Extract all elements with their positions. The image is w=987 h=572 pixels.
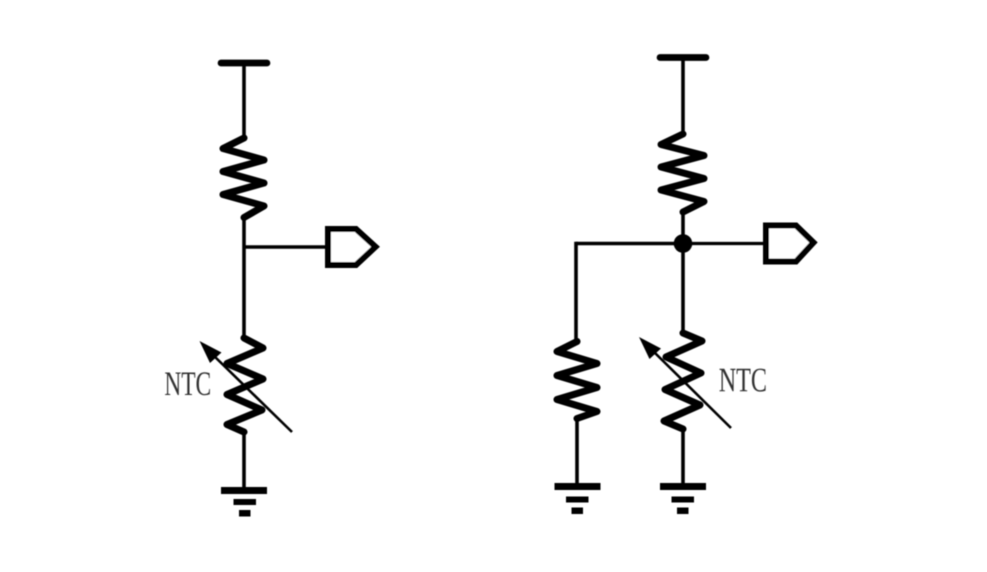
output port symbol (left) bbox=[328, 229, 376, 265]
output port symbol (right) bbox=[766, 226, 814, 262]
power bar VCC (right circuit) bbox=[660, 54, 706, 61]
wire: corner down to resistor R3 bbox=[574, 242, 578, 343]
resistor R3 (left branch) bbox=[557, 342, 597, 419]
wire: R3 to ground bbox=[575, 417, 579, 486]
wire: VCC bar to resistor R1 bbox=[242, 63, 246, 140]
wire: node to output port (right) bbox=[683, 242, 766, 245]
junction node dot bbox=[674, 234, 693, 253]
ground (R3 branch) bbox=[555, 483, 601, 514]
wire: VCC bar to resistor R2 bbox=[681, 58, 685, 137]
thermistor RT2 arrowhead bbox=[639, 337, 661, 359]
thermistor RT1 arrowhead bbox=[200, 341, 222, 363]
resistor R1 bbox=[223, 138, 264, 218]
wire: RT2 to ground bbox=[681, 427, 685, 486]
wire: R1 to thermistor RT1 (through tap node) bbox=[242, 216, 246, 340]
thermistor RT1 zigzag bbox=[227, 338, 263, 432]
wire: node to left branch corner bbox=[576, 242, 683, 246]
resistor R2 bbox=[661, 134, 704, 212]
thermistor RT2 zigzag bbox=[664, 333, 702, 429]
power bar VCC (left circuit) bbox=[221, 60, 267, 67]
ground (left circuit) bbox=[221, 487, 267, 517]
label NTC (left) bbox=[165, 372, 210, 395]
wire: RT1 to ground (left) bbox=[242, 430, 246, 490]
thermistor RT1 arrow shaft bbox=[213, 355, 292, 432]
label NTC (right) bbox=[720, 369, 766, 392]
wire: tap node to output port (left) bbox=[244, 245, 328, 248]
ground (RT2 branch) bbox=[660, 483, 706, 514]
wire: node to thermistor RT2 bbox=[681, 244, 685, 336]
thermistor RT2 arrow shaft bbox=[653, 351, 731, 428]
wire: R2 to node bbox=[681, 210, 685, 244]
